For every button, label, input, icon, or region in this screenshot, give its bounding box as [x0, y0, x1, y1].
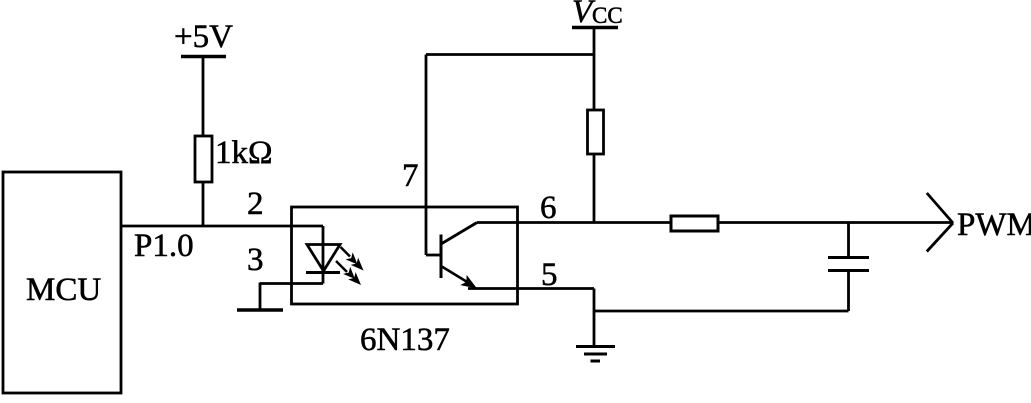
svg-text:+5V: +5V	[174, 19, 233, 55]
svg-text:6: 6	[540, 190, 557, 226]
svg-text:1kΩ: 1kΩ	[215, 135, 273, 171]
svg-text:MCU: MCU	[26, 272, 101, 308]
svg-text:5: 5	[541, 257, 558, 293]
svg-text:7: 7	[402, 158, 419, 194]
svg-text:3: 3	[247, 242, 264, 278]
svg-text:6N137: 6N137	[360, 322, 450, 358]
svg-text:P1.0: P1.0	[134, 228, 194, 264]
svg-text:PWM: PWM	[957, 207, 1031, 243]
svg-text:2: 2	[247, 186, 264, 222]
svg-text:CC: CC	[592, 3, 623, 28]
